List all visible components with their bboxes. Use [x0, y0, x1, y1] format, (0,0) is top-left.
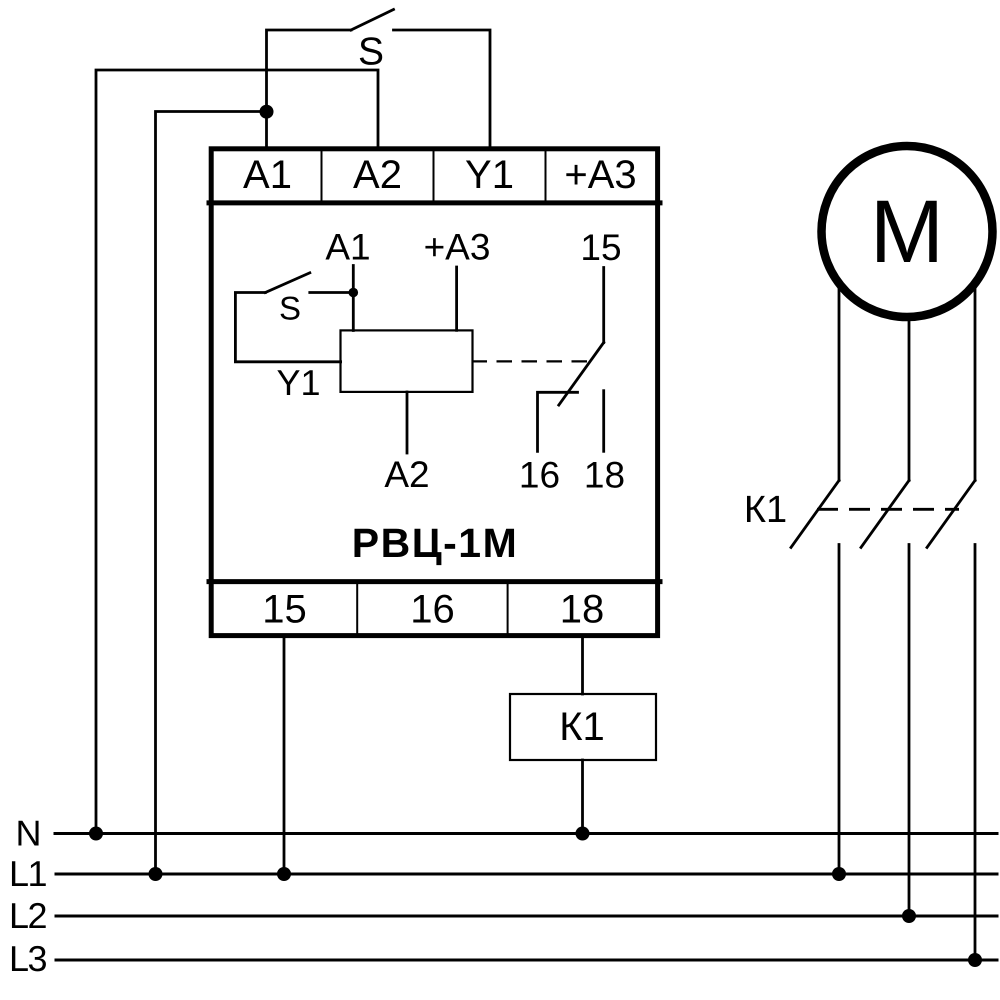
svg-text:A1: A1 — [325, 227, 370, 268]
svg-text:К1: К1 — [744, 489, 787, 531]
svg-text:15: 15 — [580, 227, 621, 268]
internal switch S blade — [265, 273, 310, 293]
bottom strip divider 16/18 — [507, 584, 509, 633]
contactor K1 dashed link line — [817, 508, 959, 511]
junction dot A2 wire on N — [89, 827, 103, 841]
svg-text:L3: L3 — [9, 938, 47, 979]
wire external switch S to Y1 terminal — [394, 30, 491, 147]
top strip divider A1/A2 — [321, 152, 323, 201]
svg-text:L2: L2 — [9, 895, 47, 936]
top strip divider Y1/+A3 — [545, 152, 547, 201]
svg-text:18: 18 — [560, 588, 605, 632]
bus L1 line — [56, 873, 997, 876]
wire A1 terminal up and right to external switch S — [267, 30, 352, 147]
internal wire 15 — [602, 268, 605, 343]
internal wire 16 — [538, 392, 578, 451]
contactor coil K1 box — [510, 694, 656, 760]
contactor contact K1.2 blade — [861, 480, 909, 547]
svg-text:N: N — [16, 813, 42, 854]
svg-text:L1: L1 — [9, 853, 47, 894]
motor lead 2 wire — [908, 250, 911, 480]
motor lead 1 wire — [838, 250, 841, 480]
junction dot motor lead 1 on L1 — [832, 867, 846, 881]
wire contact K1.2 to L2 bus — [908, 545, 911, 917]
svg-text:+A3: +A3 — [424, 227, 491, 268]
svg-text:16: 16 — [410, 588, 455, 632]
svg-text:S: S — [358, 31, 384, 74]
bus L3 line — [56, 959, 997, 962]
internal wire switch S to A1 junction — [310, 291, 354, 294]
junction dot coil K1 on N — [576, 827, 590, 841]
svg-text:Y1: Y1 — [465, 153, 514, 197]
svg-text:A2: A2 — [384, 454, 429, 495]
internal wire +A3 — [455, 267, 458, 330]
contactor contact K1.3 blade — [927, 480, 975, 547]
relay bottom terminal strip separator — [209, 579, 660, 584]
svg-text:Y1: Y1 — [276, 362, 320, 403]
relay outer box — [211, 149, 657, 636]
junction dot motor lead 3 on L3 — [968, 953, 982, 967]
bottom strip divider 15/16 — [356, 584, 358, 633]
svg-text:16: 16 — [519, 455, 560, 496]
junction dot motor lead 2 on L2 — [902, 909, 916, 923]
motor lead 3 wire — [974, 250, 977, 480]
top strip divider A2/Y1 — [433, 152, 435, 201]
svg-text:M: M — [870, 181, 944, 281]
internal wire A1 — [352, 266, 355, 331]
internal wire A2 — [406, 392, 409, 453]
svg-text:+A3: +A3 — [564, 153, 636, 197]
junction dot node A1/S — [260, 105, 274, 119]
internal wire 18 — [602, 391, 605, 452]
wire contact K1.3 to L3 bus — [974, 545, 977, 961]
wire contact K1.1 to L1 bus — [838, 545, 841, 875]
relay top terminal strip separator — [209, 200, 660, 205]
junction dot A1 wire on L1 — [149, 867, 163, 881]
wire coil K1 to N bus — [581, 760, 584, 834]
wire A2 terminal to N bus — [96, 70, 378, 834]
internal timer block — [341, 330, 473, 392]
bus N line — [55, 832, 997, 835]
bus L2 line — [56, 915, 997, 918]
svg-text:18: 18 — [584, 455, 625, 496]
svg-text:A1: A1 — [243, 153, 292, 197]
internal junction dot — [349, 288, 359, 298]
wire terminal 15 to L1 bus — [283, 638, 286, 874]
svg-text:К1: К1 — [559, 705, 605, 749]
wire terminal 18 to relay coil K1 — [581, 638, 584, 694]
svg-text:15: 15 — [262, 588, 307, 632]
svg-text:S: S — [279, 290, 301, 327]
wire A1 junction to L1 bus — [156, 112, 267, 875]
svg-text:РВЦ-1М: РВЦ-1М — [352, 520, 519, 566]
svg-text:A2: A2 — [353, 153, 402, 197]
contactor contact K1.1 blade — [791, 480, 839, 547]
motor M circle — [822, 146, 993, 317]
internal wire Y1 to switch S — [235, 293, 340, 362]
switch S (external) blade — [351, 10, 394, 31]
junction dot terminal-15 wire on L1 — [277, 867, 291, 881]
internal dashed link line — [472, 360, 590, 362]
internal contact blade 15-18 — [559, 343, 604, 406]
